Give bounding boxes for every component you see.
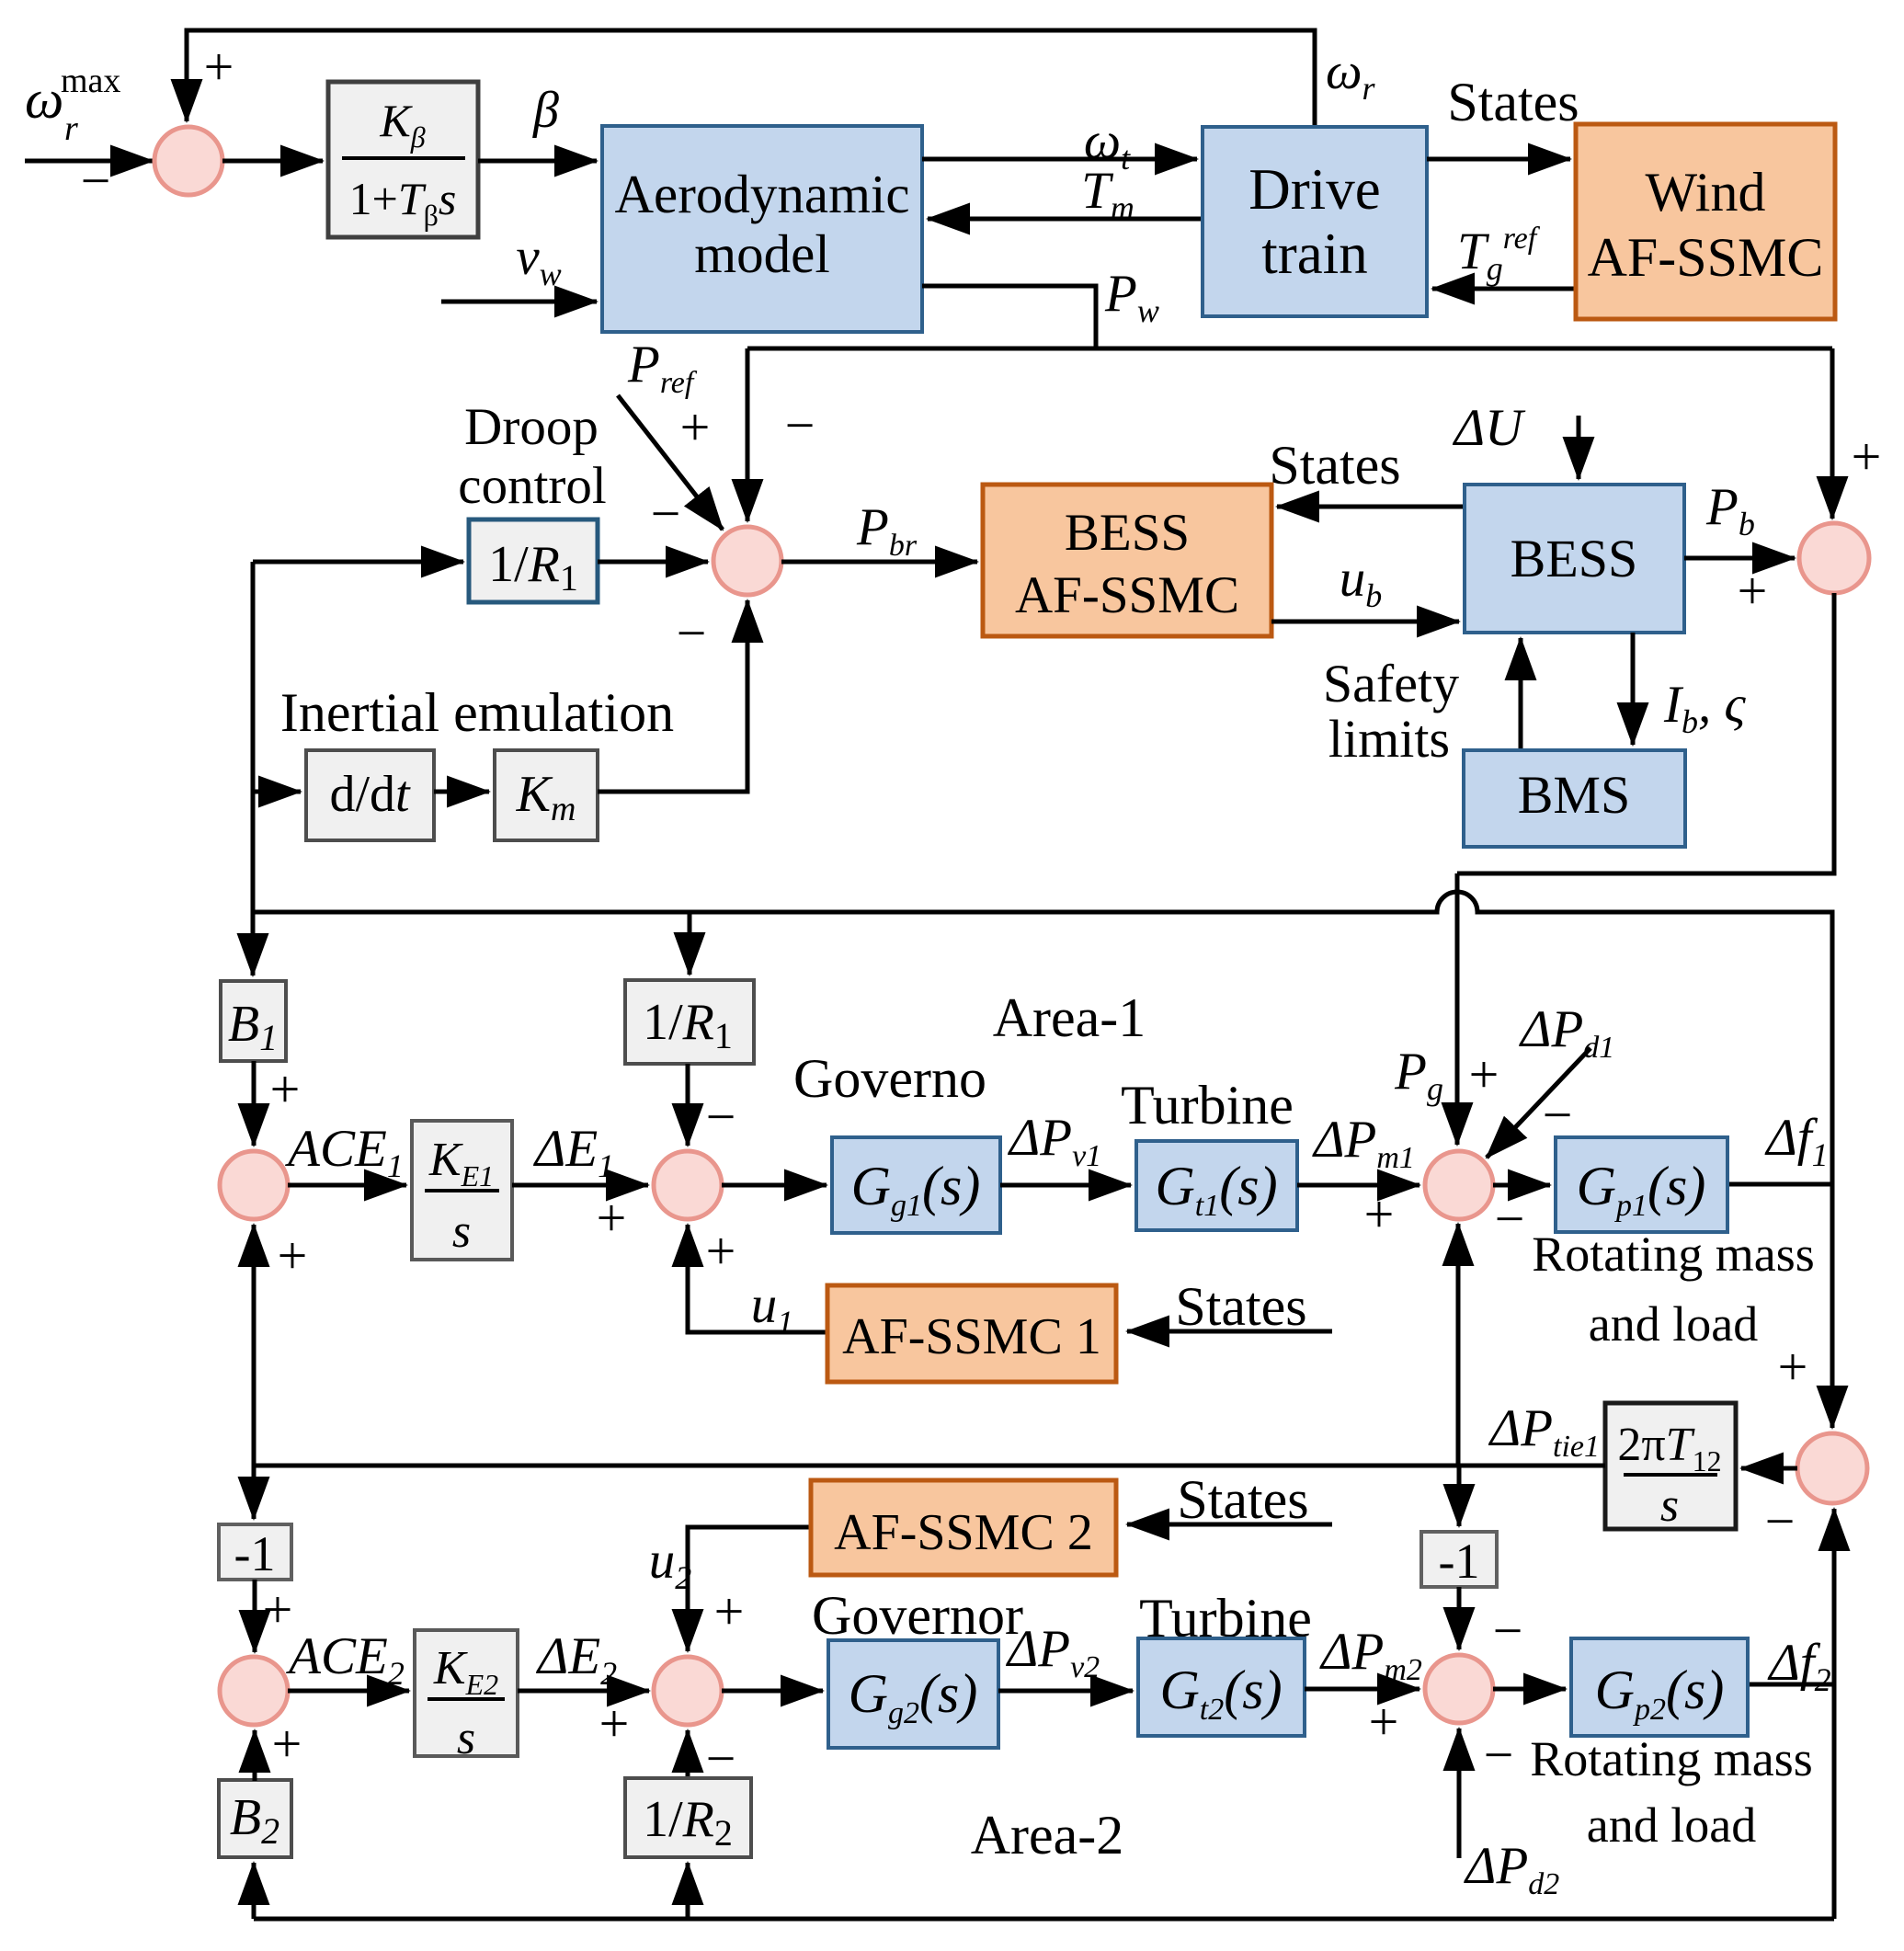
wire T_m xyxy=(928,217,1203,222)
summing junction S10 (Delta_P_m2 sum) xyxy=(1425,1655,1493,1723)
wire tie bus up to S4 xyxy=(252,1225,257,1466)
block B1 xyxy=(221,981,286,1061)
svg-text:-1: -1 xyxy=(234,1526,276,1581)
svg-text:control: control xyxy=(458,457,606,515)
wire -1 right to S10 xyxy=(1457,1587,1462,1649)
block -1 right xyxy=(1421,1532,1497,1587)
summing junction S6 (Delta_P_m1 sum) xyxy=(1425,1151,1493,1219)
wire left rail down to B1 xyxy=(251,562,256,975)
svg-text:+: + xyxy=(597,1188,627,1248)
wire S9 to Gg2 xyxy=(722,1689,823,1694)
wire left rail to 1/R1 droop xyxy=(253,560,463,565)
svg-text:Safety: Safety xyxy=(1323,654,1459,713)
svg-text:−: − xyxy=(1484,1725,1514,1785)
svg-text:d/dt: d/dt xyxy=(329,766,411,823)
svg-text:BESS: BESS xyxy=(1511,529,1638,588)
wire Delta_f1 from Gp1 xyxy=(1727,1182,1832,1187)
svg-text:Turbine: Turbine xyxy=(1121,1075,1294,1135)
wire u2 from AF-SSMC2 to S9 xyxy=(688,1527,811,1651)
summing junction S3 (P_g) xyxy=(1799,523,1869,593)
svg-text:States: States xyxy=(1175,1276,1306,1337)
svg-text:States: States xyxy=(1177,1469,1308,1530)
block tie-line 2piT12/s xyxy=(1605,1403,1736,1529)
wire Delta_f2 from Gp2 xyxy=(1748,1683,1834,1687)
svg-text:+: + xyxy=(680,397,711,457)
svg-text:Inertial emulation: Inertial emulation xyxy=(280,682,674,743)
svg-text:β: β xyxy=(532,82,559,139)
wire Delta_P_d1 diagonal xyxy=(1487,1048,1590,1158)
wire Delta_f2 up to S7 xyxy=(1832,1509,1837,1919)
svg-text:BMS: BMS xyxy=(1518,765,1631,825)
wire Km up to S2 xyxy=(598,600,747,792)
wire S10 to Gp2 xyxy=(1493,1687,1566,1692)
block Gt2 xyxy=(1138,1638,1305,1736)
svg-text:+: + xyxy=(714,1581,745,1641)
block BMS xyxy=(1464,750,1685,847)
wire tie bus down to -1 right xyxy=(1457,1466,1462,1526)
block BESS xyxy=(1465,485,1684,633)
wire beta to aerodynamic model xyxy=(478,159,597,164)
wire P_g from S3 down xyxy=(1457,593,1834,873)
summing junction S7 (tie-line) xyxy=(1797,1433,1867,1503)
wire Gg2 to Gt2 xyxy=(998,1689,1133,1694)
summing junction S1 (pitch) xyxy=(154,127,222,195)
summing junction S4 (ACE1) xyxy=(220,1151,288,1219)
svg-text:AF-SSMC 1: AF-SSMC 1 xyxy=(842,1308,1101,1365)
svg-text:ω: ω xyxy=(25,69,63,130)
wire P_w down to S3 xyxy=(1830,348,1835,519)
svg-text:Droop: Droop xyxy=(464,398,599,456)
summing junction S9 (governor2 input) xyxy=(654,1657,722,1725)
block -1 left xyxy=(219,1524,291,1580)
svg-text:model: model xyxy=(694,223,829,284)
block Gg1 xyxy=(832,1137,1000,1233)
wire 1/R2 to S9 xyxy=(686,1730,690,1778)
block BESS AF-SSMC xyxy=(983,485,1271,636)
svg-text:AF-SSMC 2: AF-SSMC 2 xyxy=(834,1504,1093,1561)
svg-text:−: − xyxy=(81,151,111,211)
svg-text:limits: limits xyxy=(1328,709,1450,769)
svg-text:max: max xyxy=(61,62,120,100)
block KE2/s xyxy=(415,1630,518,1756)
svg-text:+: + xyxy=(278,1226,308,1285)
svg-text:AF-SSMC: AF-SSMC xyxy=(1588,227,1824,288)
wire Delta_U into BESS xyxy=(1577,416,1581,479)
block B2 xyxy=(219,1780,291,1857)
svg-text:AF-SSMC: AF-SSMC xyxy=(1015,566,1239,624)
svg-text:ΔU: ΔU xyxy=(1453,399,1526,457)
wire P_g down to S6 xyxy=(1455,873,1460,1145)
wire left rail to d/dt xyxy=(253,790,301,794)
wire S7 to 2piT12 block xyxy=(1741,1466,1797,1471)
wire S8 to KE2 xyxy=(288,1689,409,1694)
svg-text:+: + xyxy=(1852,427,1882,486)
svg-text:ACE2​: ACE2​ xyxy=(285,1627,405,1692)
svg-text:s: s xyxy=(452,1205,471,1258)
wire Delta_f1 bus xyxy=(253,892,1832,1428)
svg-text:Wind: Wind xyxy=(1646,162,1766,222)
svg-text:and load: and load xyxy=(1587,1797,1756,1853)
svg-text:+: + xyxy=(1364,1184,1395,1244)
wire KE1 to S5 xyxy=(512,1183,648,1188)
wire 1/R1 droop to S2 xyxy=(598,560,708,565)
svg-text:1+Tβ​s: 1+Tβ​s xyxy=(349,173,457,232)
wire -1 to S8 xyxy=(253,1580,257,1652)
wire bottom bus up to 1/R2 xyxy=(686,1863,690,1919)
summing junction S2 (BESS ref) xyxy=(713,527,781,595)
block droop gain 1/R1 xyxy=(469,519,598,602)
svg-text:States: States xyxy=(1447,72,1579,132)
block Gp1 xyxy=(1556,1137,1727,1232)
wire u1 from AF-SSMC1 to S5 xyxy=(688,1225,827,1332)
block Gp2 xyxy=(1571,1638,1748,1736)
wire tie bus down to -1 left xyxy=(252,1466,257,1519)
svg-text:+: + xyxy=(1369,1692,1399,1751)
wire Gt1 to S6 xyxy=(1297,1183,1419,1188)
svg-text:Aerodynamic: Aerodynamic xyxy=(614,164,909,224)
svg-text:Ib​, ς: Ib​, ς xyxy=(1663,676,1746,740)
svg-text:−: − xyxy=(1765,1491,1796,1551)
svg-text:-1: -1 xyxy=(1439,1534,1480,1589)
svg-text:Governo: Governo xyxy=(793,1048,986,1109)
svg-text:r: r xyxy=(64,109,78,148)
wire d/dt to Km xyxy=(434,790,489,794)
svg-text:−: − xyxy=(1493,1601,1523,1660)
wire v_w input xyxy=(441,300,597,304)
svg-text:+: + xyxy=(270,1059,301,1119)
wire input to S1 xyxy=(25,159,153,164)
svg-text:s: s xyxy=(1660,1479,1679,1532)
summing junction S5 (governor1 input) xyxy=(654,1151,722,1219)
wire B1 to S4 xyxy=(252,1061,257,1146)
svg-text:Drive: Drive xyxy=(1248,157,1380,222)
svg-text:+: + xyxy=(204,37,234,97)
svg-text:Area-2: Area-2 xyxy=(971,1805,1124,1865)
wire states to AF-SSMC2 xyxy=(1127,1523,1332,1527)
svg-text:+: + xyxy=(272,1714,302,1774)
wire P_w down to S2 xyxy=(746,348,750,521)
block drive train xyxy=(1203,127,1427,316)
svg-text:States: States xyxy=(1269,435,1400,496)
wire bottom bus up to B2 xyxy=(252,1863,257,1919)
svg-text:s: s xyxy=(457,1712,475,1764)
wire KE2 to S9 xyxy=(518,1689,649,1694)
summing junction S8 (ACE2) xyxy=(220,1657,288,1725)
wire tie-line bus xyxy=(254,1464,1605,1468)
svg-text:−: − xyxy=(1495,1189,1525,1249)
svg-text:BESS: BESS xyxy=(1065,504,1190,562)
svg-text:Area-1: Area-1 xyxy=(993,987,1146,1048)
wire safety limits to BESS xyxy=(1519,638,1523,750)
wire P_w horizontal rail xyxy=(747,347,1832,351)
wire omega_t xyxy=(922,157,1197,162)
wire states to AF-SSMC1 xyxy=(1127,1329,1332,1334)
wire S6 to Gp1 xyxy=(1493,1183,1550,1188)
svg-text:−: − xyxy=(677,603,707,663)
svg-text:+: + xyxy=(1469,1044,1499,1104)
block aerodynamic model xyxy=(602,126,922,332)
block KE1/s xyxy=(412,1121,512,1260)
svg-text:−: − xyxy=(785,395,815,455)
wire P_w from aero model xyxy=(922,286,1096,348)
svg-text:and load: and load xyxy=(1589,1296,1758,1352)
block Gt1 xyxy=(1136,1141,1297,1230)
wire B2 to S8 xyxy=(253,1730,257,1781)
block AF-SSMC 2 xyxy=(811,1480,1116,1575)
svg-text:train: train xyxy=(1261,222,1367,286)
block derivative d/dt xyxy=(306,750,434,840)
wire P_b BESS to S3 xyxy=(1684,556,1795,561)
svg-text:+: + xyxy=(1738,561,1768,621)
wire tie bus up to S6 xyxy=(1456,1224,1461,1466)
wire bus down to 1/R1 area1 xyxy=(688,912,692,975)
wire T_g_ref xyxy=(1432,287,1576,291)
wire P_ref diagonal into S2 xyxy=(618,395,723,530)
wire S5 to Gg1 xyxy=(722,1183,827,1188)
block 1/R1 area1 xyxy=(625,980,754,1064)
wire Gt2 to S10 xyxy=(1305,1687,1419,1692)
block pitch actuator Kbeta/(1+Tbeta s) xyxy=(328,82,478,237)
svg-text:Rotating mass: Rotating mass xyxy=(1532,1227,1815,1282)
svg-text:−: − xyxy=(651,484,681,543)
svg-text:Governor: Governor xyxy=(812,1585,1023,1646)
svg-text:+: + xyxy=(706,1221,736,1281)
wire omega_r feedback from drive train to S1 xyxy=(187,30,1315,129)
block 1/R2 xyxy=(625,1778,751,1857)
block Gg2 xyxy=(828,1640,998,1748)
svg-text:Rotating mass: Rotating mass xyxy=(1530,1731,1813,1786)
wire Delta_P_d2 into S10 xyxy=(1457,1729,1462,1858)
wire 1/R1 to S5 xyxy=(686,1064,690,1146)
wire I_b to BMS xyxy=(1631,633,1636,745)
svg-text:+: + xyxy=(599,1694,630,1753)
wire states drive train to wind AF-SSMC xyxy=(1427,157,1570,162)
svg-text:+: + xyxy=(1778,1337,1808,1397)
wire states BESS to BESS AF-SSMC xyxy=(1277,505,1465,509)
wire S1 to pitch block xyxy=(222,159,323,164)
block inertia gain Km xyxy=(495,750,598,840)
block AF-SSMC 1 xyxy=(827,1285,1116,1382)
wire u_b xyxy=(1271,620,1459,624)
svg-text:−: − xyxy=(706,1087,736,1147)
wire Gg1 to Gt1 xyxy=(1000,1183,1131,1188)
wire P_br to BESS AF-SSMC xyxy=(781,560,977,565)
wire S4 to KE1 xyxy=(288,1183,406,1188)
block wind AF-SSMC xyxy=(1576,124,1835,319)
wire bottom Delta_f2 bus xyxy=(254,1917,1834,1922)
svg-text:ACE1​: ACE1​ xyxy=(284,1120,404,1184)
